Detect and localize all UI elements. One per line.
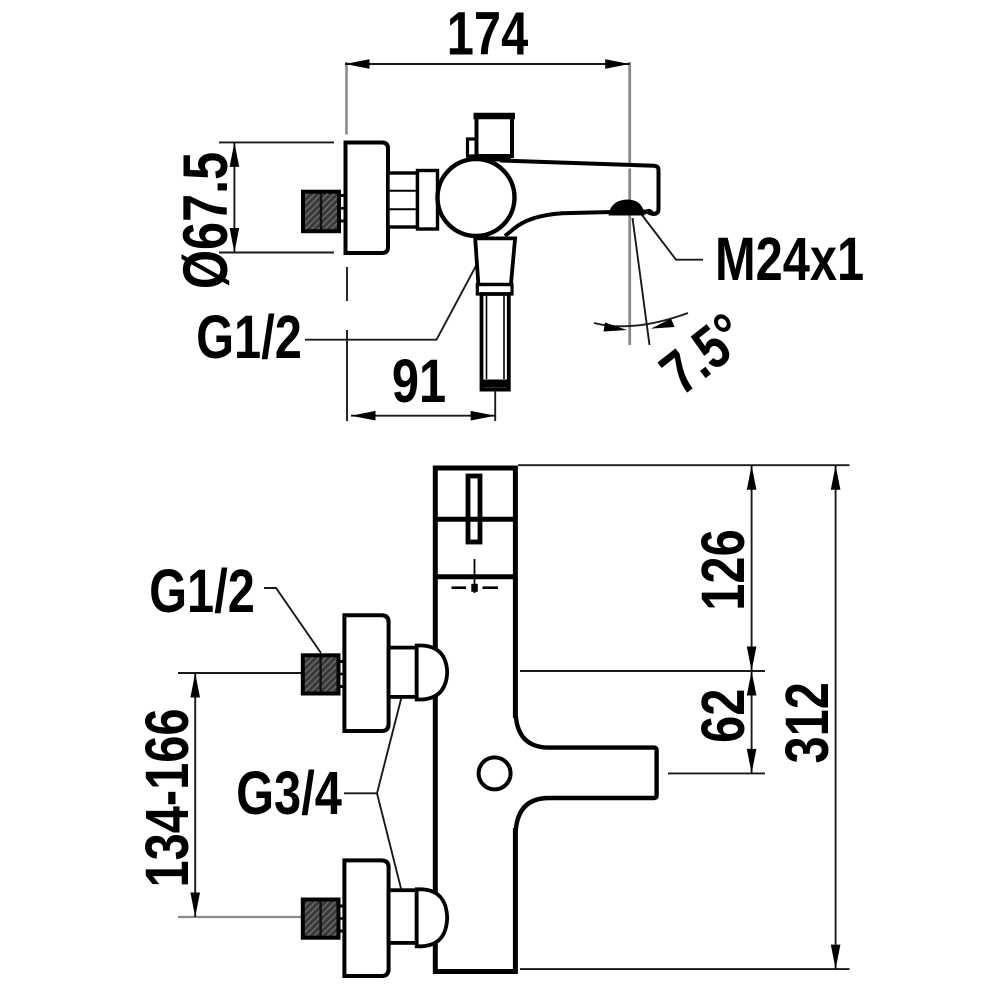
nipple stem (338, 196, 347, 222)
svg-text:G1/2: G1/2 (149, 557, 255, 625)
angle 7.5: slanted line (633, 218, 650, 345)
body section 1 with thread lines (388, 173, 418, 227)
top connector: dome nut (417, 646, 448, 700)
dim 67.5 extension lines (219, 141, 334, 143)
top connector: stem (338, 662, 347, 687)
bottom connector: nipple (303, 900, 339, 938)
svg-text:174: 174 (447, 0, 529, 68)
bottom connector: dome nut (417, 889, 448, 946)
gray extension line visible inside spout (628, 169, 631, 201)
dim line 91 (351, 415, 495, 417)
svg-text:91: 91 (392, 347, 446, 415)
dim 312 (835, 465, 837, 969)
handle slot (468, 476, 480, 542)
leader G3/4 (344, 688, 404, 794)
svg-text:M24x1: M24x1 (715, 225, 864, 293)
spout (500, 161, 659, 237)
extension lines right (518, 464, 850, 466)
top connector: flange (344, 615, 388, 731)
top connector: nipple (303, 655, 339, 693)
body (435, 468, 515, 972)
91 extension right (494, 376, 496, 421)
gray extension line 174 left (345, 62, 348, 135)
wall flange (346, 143, 389, 254)
dim 62 (751, 671, 753, 773)
body section 2 (418, 171, 438, 230)
svg-text:G1/2: G1/2 (196, 303, 302, 371)
outlet cone (475, 238, 515, 284)
dim line 67.5 (233, 142, 235, 252)
G1/2 nipple hatched (303, 192, 339, 232)
center line below flange (346, 267, 348, 301)
svg-text:62: 62 (689, 689, 757, 743)
spout bottom view (510, 718, 520, 828)
svg-text:312: 312 (773, 682, 841, 763)
center mark (474, 559, 476, 593)
svg-text:Ø67.5: Ø67.5 (171, 152, 242, 289)
dim line 174 (345, 63, 630, 65)
svg-text:126: 126 (689, 529, 757, 610)
diverter knob (468, 139, 479, 156)
bottom connector: stem (338, 906, 347, 931)
cone ring (477, 285, 512, 294)
circle on body (479, 757, 511, 789)
bottom connector: flange (344, 860, 388, 976)
aerator (609, 199, 645, 215)
leader G1/2 bottom (264, 588, 321, 653)
valve circle (438, 159, 515, 236)
leader G1/2 top view (305, 249, 485, 340)
outlet pipe (482, 294, 509, 390)
gray extension line 174 right / angle pivot (628, 62, 631, 345)
leader M24x1 (642, 215, 703, 260)
angle arc (594, 313, 688, 326)
bottom connector: cylinder (389, 890, 417, 943)
svg-text:134-166: 134-166 (133, 708, 201, 887)
dim 126 (751, 465, 753, 671)
dim 134-166 (178, 672, 302, 674)
top connector: cylinder (389, 648, 417, 697)
svg-text:G3/4: G3/4 (236, 759, 342, 827)
